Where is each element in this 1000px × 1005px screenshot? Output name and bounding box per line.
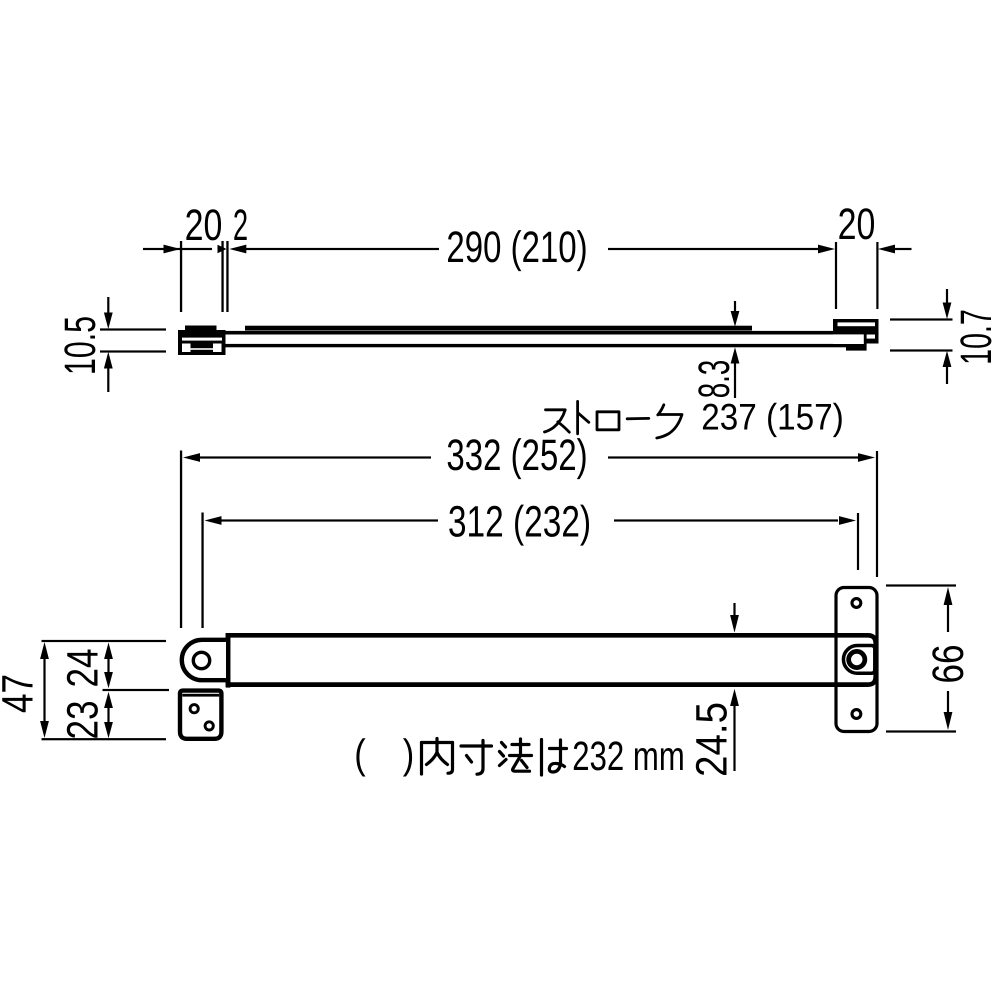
stroke label digits 237(157) [703,403,842,437]
arrowhead 332 right [858,453,875,462]
slider upper thick line [245,326,752,331]
arrowhead 312 left [205,516,222,525]
rail (top view) [226,326,867,351]
rail hanging tab [846,344,867,351]
10.5 arrow upper stem [107,297,109,313]
rail bottom edge line [226,344,847,347]
66 stub top [886,584,956,586]
text 23 rotated [67,702,98,738]
extension line right piece left edge [835,242,837,309]
extension line right piece right edge [876,242,878,309]
left bottom plate [180,691,221,739]
kanji SUN vertical hook [477,741,483,775]
10.5 ext line lower [100,350,166,352]
right plate (bottom view) [836,588,877,732]
arrowhead 20-right (squeezed) pointing right [218,245,227,253]
kanji HOU water dot 2 [500,752,504,757]
BOTTOM VIEW [180,451,878,629]
ext line 312 left [201,513,203,629]
10.7 arrow upper stem [946,289,948,303]
text 290(210) [448,230,586,271]
boss rounded end [843,646,874,674]
dim line segment 290 left part [245,248,439,250]
plate hole 1 [190,705,198,713]
kanji HOU middle bar [510,754,532,757]
plate hole 2 [205,722,213,730]
66 dimension [886,584,956,732]
kanji NAI right vertical with hook [448,743,453,774]
10.5 arrowhead up [104,352,113,369]
kana long vowel bar [627,417,649,420]
10.5 arrow lower stem [107,369,109,393]
dim line 332 left seg [199,456,431,458]
24.5 arrowhead down [730,615,739,633]
block white slot [182,338,222,341]
JP note sentence: 232 mm [574,741,683,770]
text 24.5 rotated [696,704,727,775]
text 2 top-left [234,209,246,240]
block body [178,330,226,355]
66 arrow stem top [947,604,949,632]
right piece bar passage white [833,334,864,344]
66 arrowhead down [944,712,953,730]
text 20 top-right [839,208,874,239]
kanji HOU water dot 1 [502,743,506,748]
text 47 rotated [2,676,32,713]
10.5 ext line upper [100,328,166,330]
text 10.7 rotated [960,311,991,363]
kanji NAI top bar [422,741,453,744]
kana SU [545,410,566,432]
arrowhead 20R pointing left [878,245,895,254]
extension line left of 20 dim [180,241,182,312]
plate outline [180,691,221,739]
kanji NAI left leg [427,753,438,765]
plate inner line [182,694,219,697]
kanji SUN dot [467,756,472,763]
right piece white notch [867,335,875,339]
kanji HOU mu diagonal [513,758,530,772]
8.3 arrow lower stem [734,364,736,399]
text 24 rotated [67,649,98,685]
kanji HOU mu tail [522,761,528,768]
24.5 dimension [730,603,739,771]
link hole [193,652,209,668]
23 arrowhead down [104,722,113,738]
23 arrow stem [107,707,109,723]
text 8.3 rotated [698,361,729,397]
10.5 arrowhead down [104,313,113,330]
arrowhead 290 left pointing left [229,245,246,254]
kanji SUN top bar [461,744,492,747]
text 312(232) [449,505,589,546]
right end piece (top view) [833,319,879,344]
block white hint line [191,348,214,350]
kana KU stroke 2 [657,415,682,439]
23 arrowhead up [104,692,113,708]
left link (bottom view) [182,640,226,680]
text 20 top-left [186,209,221,240]
kana HA top bar [550,747,567,750]
JP note sentence: kanji nai-sun-pou-ha [422,739,567,776]
24 arrowhead up [104,643,113,660]
arrowhead 20-left pointing right [164,245,181,254]
dim line segment 290 right part [608,248,818,250]
TOP VIEW [143,241,912,312]
JP text: stroke label kana (sutoroku) [545,401,683,438]
kanji HOU top bar [512,743,529,746]
text 66 rotated [932,646,963,682]
right 10.7 dimension [890,289,953,384]
right plate hole top [852,599,861,608]
left 10.5 dimension [100,297,166,392]
24.5 arrow lower stem [733,706,735,771]
link outline [182,640,226,680]
kana HA loop [549,763,564,773]
66 stub bottom [886,730,956,732]
right plate hole bottom [852,710,861,719]
right piece white slot [838,322,876,326]
47 arrow stem [43,658,45,721]
ext line y641 [42,640,167,642]
kanji HOU water dot 3 [500,760,507,766]
66 arrowhead up [944,587,953,605]
ext line y690 [103,689,170,691]
kana RO box [597,412,619,430]
kana KU stroke 1 [658,405,664,415]
kanji NAI center stem [435,739,438,753]
dim line 312 left seg [221,519,439,521]
rail top edge line [226,331,836,335]
kana HA left vertical [540,740,543,776]
ext line 332 right [876,451,878,577]
text 10.5 rotated [64,317,95,373]
kana SU leg [558,422,570,432]
kana HA right vertical [559,740,562,763]
47 arrowhead down [40,721,49,738]
bar left cap thick edge [226,633,231,688]
24 arrow stem [107,658,109,673]
extension line pair left (2 dim) line b [226,241,228,312]
dim line segment far left [143,248,212,250]
24 arrowhead down [104,672,113,688]
right piece body [833,319,879,344]
24.5 arrowhead up [730,689,739,706]
dim line 312 right seg [614,519,838,521]
arrowhead 332 left [183,453,200,462]
10.7 ext line lower [890,349,953,351]
extension line pair left (2 dim) line a [221,241,223,312]
kanji NAI right leg [437,753,448,765]
kana TO diagonal [578,413,589,423]
arrowhead 312 right [839,516,856,525]
10.7 arrowhead down [943,303,952,320]
block top tab [185,326,217,331]
66 arrow stem bottom [947,691,949,713]
block white pocket left [182,344,191,353]
10.7 ext line upper [890,318,953,320]
kana TO vertical [576,401,579,433]
47 arrowhead up [40,642,49,659]
8.3 arrow upper stem [734,301,736,312]
dim line 332 right seg [608,456,858,458]
arm bar (bottom view) [226,633,876,688]
right plate outline [836,588,877,732]
rail end cap [864,333,867,345]
JP note sentence: opening paren [356,738,365,776]
pin ring [849,651,865,667]
left dims 47/24/23 [40,640,169,740]
10.7 arrowhead up [943,351,952,367]
kanji NAI left vertical [420,743,423,775]
arrowhead 290 right pointing right [818,245,835,254]
block white pocket right [213,344,222,353]
ext line 332 left [180,451,182,629]
ext line 312 right [857,513,859,570]
bar body [228,635,876,684]
dim line segment far right [894,248,912,250]
left end block of rail (top view) [178,326,226,356]
kanji HOU vertical [519,739,522,756]
10.7 arrow lower stem [946,367,948,384]
text 332(252) [448,438,586,479]
24.5 arrow upper stem [733,603,735,616]
8.3 arrowhead up [731,347,740,363]
JP note sentence: closing paren [403,738,412,776]
ext line y740 [42,738,167,740]
8.3 arrowhead down [731,311,740,327]
8.3 dimension [731,301,740,398]
